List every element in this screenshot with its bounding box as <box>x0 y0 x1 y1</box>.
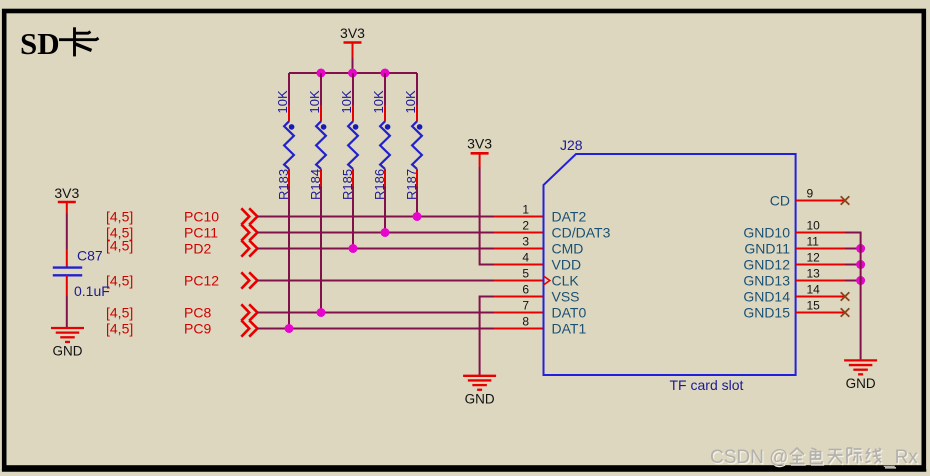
svg-text:10K: 10K <box>307 90 322 113</box>
svg-text:DAT2: DAT2 <box>552 209 587 225</box>
svg-text:GND12: GND12 <box>743 257 790 273</box>
svg-text:PC8: PC8 <box>184 305 211 321</box>
svg-text:PC12: PC12 <box>184 273 219 289</box>
svg-text:7: 7 <box>522 299 529 313</box>
svg-text:10K: 10K <box>403 90 418 113</box>
svg-text:PC10: PC10 <box>184 209 219 225</box>
svg-text:[4,5]: [4,5] <box>106 305 133 321</box>
svg-text:J28: J28 <box>560 137 583 153</box>
svg-text:PC9: PC9 <box>184 321 211 337</box>
svg-text:14: 14 <box>807 283 821 297</box>
svg-text:15: 15 <box>807 299 821 313</box>
svg-text:[4,5]: [4,5] <box>106 321 133 337</box>
svg-text:GND11: GND11 <box>744 241 790 257</box>
svg-text:1: 1 <box>522 203 529 217</box>
svg-text:0.1uF: 0.1uF <box>74 283 110 299</box>
svg-text:PD2: PD2 <box>184 241 211 257</box>
svg-text:CD: CD <box>770 193 790 209</box>
svg-text:10K: 10K <box>339 90 354 113</box>
svg-text:DAT0: DAT0 <box>552 305 587 321</box>
svg-text:10: 10 <box>807 219 821 233</box>
svg-text:CSDN @: CSDN @ <box>710 447 788 468</box>
svg-text:GND: GND <box>846 376 876 391</box>
svg-text:CLK: CLK <box>552 273 580 289</box>
svg-text:CD/DAT3: CD/DAT3 <box>552 225 611 241</box>
svg-text:TF card slot: TF card slot <box>670 377 744 393</box>
svg-text:11: 11 <box>807 235 820 249</box>
svg-text:2: 2 <box>522 219 529 233</box>
svg-text:SD: SD <box>20 26 60 61</box>
svg-text:[4,5]: [4,5] <box>106 209 133 225</box>
svg-text:3V3: 3V3 <box>54 185 79 201</box>
svg-text:R187: R187 <box>404 169 419 200</box>
svg-text:12: 12 <box>807 251 821 265</box>
svg-text:R185: R185 <box>340 169 355 200</box>
svg-text:3V3: 3V3 <box>340 25 365 41</box>
svg-text:GND: GND <box>465 391 495 406</box>
svg-text:GND10: GND10 <box>743 225 790 241</box>
svg-text:9: 9 <box>807 187 814 201</box>
svg-text:PC11: PC11 <box>184 225 218 241</box>
svg-text:R184: R184 <box>308 169 323 200</box>
svg-text:CMD: CMD <box>552 241 584 257</box>
svg-text:6: 6 <box>522 283 529 297</box>
svg-text:GND15: GND15 <box>743 305 790 321</box>
svg-text:10K: 10K <box>371 90 386 113</box>
svg-text:13: 13 <box>807 267 821 281</box>
svg-text:5: 5 <box>522 267 529 281</box>
svg-text:_Rx: _Rx <box>883 447 918 468</box>
svg-text:VDD: VDD <box>552 257 582 273</box>
svg-text:VSS: VSS <box>552 289 580 305</box>
svg-text:4: 4 <box>522 251 529 265</box>
svg-text:DAT1: DAT1 <box>552 321 587 337</box>
svg-text:GND: GND <box>53 344 83 359</box>
svg-text:C87: C87 <box>77 248 103 264</box>
svg-text:R183: R183 <box>276 169 291 200</box>
svg-text:8: 8 <box>522 315 529 329</box>
svg-text:R186: R186 <box>372 169 387 200</box>
svg-text:3: 3 <box>522 235 529 249</box>
svg-text:[4,5]: [4,5] <box>106 273 133 289</box>
svg-text:3V3: 3V3 <box>467 136 492 152</box>
svg-text:GND13: GND13 <box>743 273 790 289</box>
svg-text:10K: 10K <box>275 90 290 113</box>
svg-text:[4,5]: [4,5] <box>106 238 133 254</box>
svg-text:GND14: GND14 <box>743 289 790 305</box>
